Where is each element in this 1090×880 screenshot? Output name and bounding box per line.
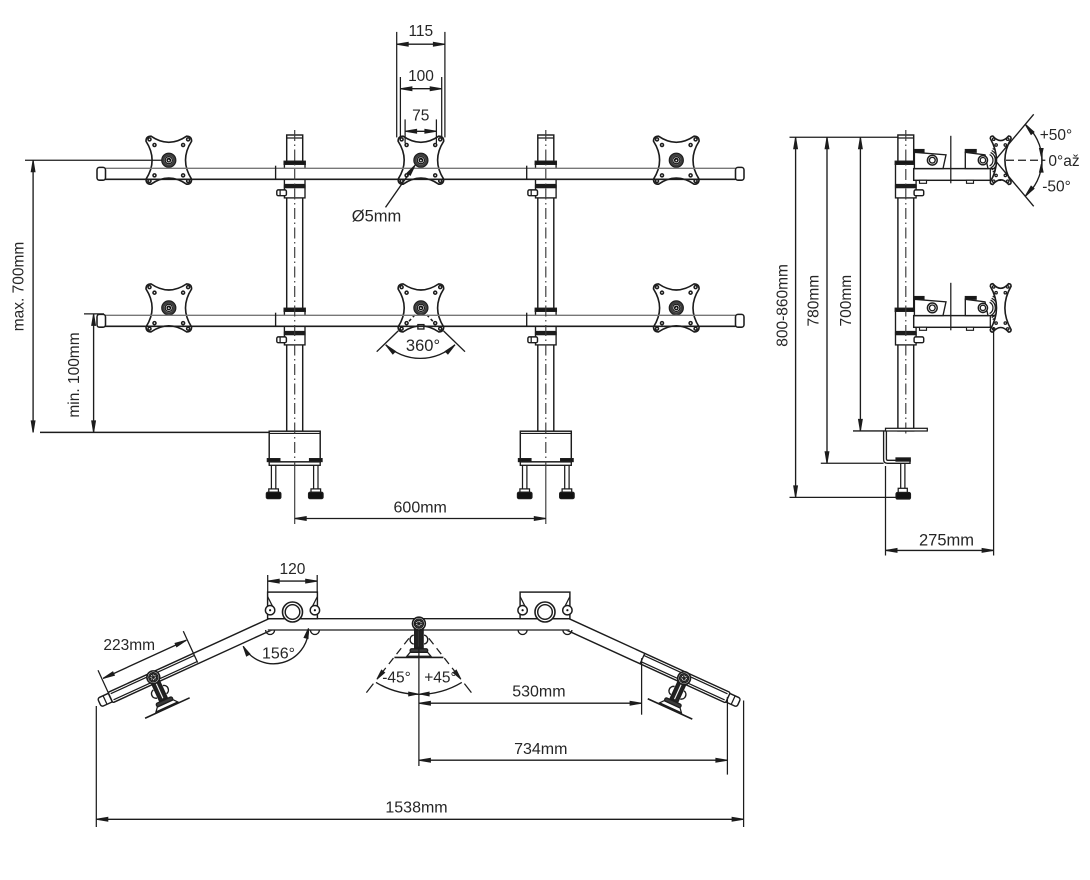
svg-text:360°: 360° bbox=[406, 337, 440, 355]
svg-text:800-860mm: 800-860mm bbox=[775, 264, 792, 347]
svg-text:-50°: -50° bbox=[1042, 179, 1071, 196]
svg-text:780mm: 780mm bbox=[806, 275, 823, 327]
svg-text:1538mm: 1538mm bbox=[385, 800, 447, 817]
svg-text:max. 700mm: max. 700mm bbox=[11, 242, 28, 332]
svg-text:530mm: 530mm bbox=[512, 683, 565, 700]
svg-text:223mm: 223mm bbox=[103, 637, 155, 654]
svg-text:Ø5mm: Ø5mm bbox=[352, 208, 402, 226]
svg-text:+45°: +45° bbox=[424, 670, 457, 687]
svg-text:156°: 156° bbox=[262, 646, 295, 663]
svg-text:75: 75 bbox=[412, 108, 429, 125]
svg-text:115: 115 bbox=[408, 23, 433, 40]
svg-text:600mm: 600mm bbox=[394, 500, 447, 517]
svg-text:+50°: +50° bbox=[1040, 127, 1073, 144]
svg-text:0°až: 0°až bbox=[1048, 153, 1079, 170]
svg-text:100: 100 bbox=[408, 68, 434, 85]
svg-text:700mm: 700mm bbox=[838, 275, 855, 327]
svg-text:275mm: 275mm bbox=[919, 532, 974, 550]
svg-text:734mm: 734mm bbox=[514, 741, 567, 758]
svg-text:120: 120 bbox=[279, 561, 305, 578]
svg-text:-45°: -45° bbox=[382, 670, 411, 687]
svg-text:min. 100mm: min. 100mm bbox=[66, 332, 83, 417]
